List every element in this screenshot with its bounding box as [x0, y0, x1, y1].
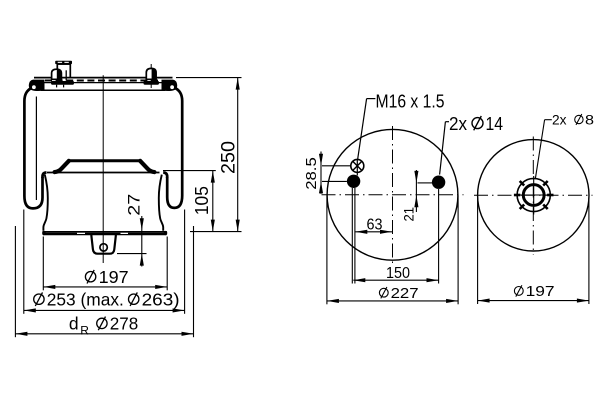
dim bottom extension line — [190, 231, 242, 233]
top plate top line — [34, 77, 173, 79]
svg-text:d: d — [69, 314, 79, 334]
piston flange line — [47, 172, 160, 174]
bottom plate slits — [77, 233, 85, 234]
left stud — [52, 69, 62, 79]
svg-text:28.5: 28.5 — [303, 157, 320, 190]
svg-text:263): 263) — [142, 290, 180, 310]
dim 197 text — [85, 272, 95, 282]
air fitting body — [57, 64, 70, 78]
dim 278 arrows — [15, 332, 27, 336]
top plate crimp dashes — [45, 80, 161, 82]
label M16 leader — [367, 98, 376, 100]
svg-text:63: 63 — [367, 217, 383, 234]
centerline left view — [102, 75, 104, 263]
dim 197 right line — [478, 300, 589, 302]
dim 28.5 ext lines — [322, 165, 351, 167]
hub bore circle — [523, 185, 544, 206]
right hole ext line — [438, 189, 440, 284]
dim 227 ext lines — [326, 196, 328, 305]
piston right side — [159, 175, 163, 231]
M16 port symbol — [351, 159, 364, 172]
bottom view h-centerline — [474, 194, 593, 196]
svg-text:150: 150 — [386, 265, 410, 282]
dim 28.5 arrows — [319, 154, 323, 166]
dim 278 ext lines — [14, 226, 16, 337]
top view v-centerline — [392, 126, 394, 265]
bellows inner surface line — [35, 97, 37, 201]
piston left side — [43, 175, 47, 231]
bellows shoulder line — [41, 89, 165, 91]
svg-text:250: 250 — [218, 141, 240, 174]
svg-text:105: 105 — [192, 186, 212, 215]
svg-text:27: 27 — [125, 194, 144, 216]
top view h-centerline — [322, 194, 464, 196]
dim 105 extension line — [163, 170, 216, 172]
boss hole — [100, 244, 107, 251]
air fitting flange — [55, 61, 72, 64]
dim 197 right arrows — [478, 299, 490, 303]
bottom plate end caps — [42, 231, 45, 235]
svg-text:M16 x 1.5: M16 x 1.5 — [376, 91, 445, 112]
hole ext lines pair — [351, 188, 353, 284]
svg-text:2x: 2x — [552, 112, 567, 128]
right stud — [146, 68, 156, 79]
svg-text:2x: 2x — [449, 113, 468, 134]
dim 278 line — [15, 333, 193, 335]
dim 21 line — [415, 170, 417, 212]
hub bolt circle ticks — [547, 194, 553, 197]
bellows inner wall top curl right — [163, 173, 167, 179]
dim 150 arrows — [353, 278, 365, 282]
dim 227 arrows — [327, 299, 339, 303]
dim 253 arrows — [24, 308, 36, 312]
right stud centerline — [150, 64, 152, 88]
right bead — [162, 80, 178, 91]
dim 250 line — [237, 78, 239, 232]
dim 105 arrows — [211, 171, 215, 183]
hub crosshair — [533, 176, 535, 215]
dim 250 top extension line — [176, 77, 242, 79]
svg-text:278: 278 — [110, 314, 139, 334]
dim 253 line — [24, 309, 185, 311]
svg-text:R: R — [80, 324, 89, 338]
air fitting flange slots — [58, 62, 62, 63]
dim 227 text — [379, 288, 388, 297]
svg-text:21: 21 — [401, 207, 417, 222]
top plate lower line — [44, 82, 162, 84]
label 2x8 leader — [545, 119, 552, 121]
piston top plate — [69, 159, 141, 162]
dim 253 ext lines — [23, 210, 25, 314]
dim 250 arrows — [236, 78, 240, 90]
svg-text:227: 227 — [391, 286, 419, 302]
hole 14 right — [432, 176, 445, 189]
bottom plate lower line — [43, 233, 166, 236]
dim 197 arrows — [43, 285, 55, 289]
dim 28.5 line — [320, 152, 322, 194]
bellows wall left — [24, 88, 42, 208]
svg-text:253 (max.: 253 (max. — [47, 290, 124, 310]
dim 63 line — [355, 231, 392, 233]
dim 150 line — [353, 279, 438, 281]
dim 253 text — [34, 294, 44, 304]
dim 197 right text — [514, 287, 523, 296]
svg-text:8: 8 — [585, 112, 594, 128]
piston bevel right — [140, 161, 154, 172]
piston bevel left — [55, 161, 69, 172]
dim 21 arrows — [414, 171, 418, 183]
dim 197 line — [43, 286, 167, 288]
bellows wall right — [167, 88, 182, 208]
dim 105 line — [212, 171, 214, 232]
svg-text:14: 14 — [486, 113, 504, 134]
hub bolt circle — [517, 178, 550, 211]
dim 21 ext line — [418, 182, 433, 184]
dim 197 ext lines — [42, 237, 44, 291]
hole 14 left — [347, 175, 360, 188]
svg-text:197: 197 — [526, 284, 555, 300]
right washer — [144, 81, 160, 85]
dim 63 arrows — [355, 230, 367, 234]
bottom view circle — [478, 140, 589, 251]
dim 227 line — [327, 300, 458, 302]
bellows inner wall top curl left — [43, 173, 47, 179]
dim 197 right ext lines — [477, 198, 479, 305]
bottom boss — [91, 235, 116, 254]
left bead — [29, 80, 45, 91]
air fitting inner line — [65, 70, 67, 80]
dim 27 arrows — [140, 218, 144, 230]
left washer ticks — [56, 85, 58, 88]
bottom plate upper line — [43, 231, 167, 233]
dim 27 extension line — [117, 253, 147, 255]
top view circle — [327, 129, 458, 260]
left washer — [51, 81, 74, 85]
bottom view v-centerline — [532, 137, 534, 255]
dim 27 line — [141, 216, 143, 267]
label 2x14 leader — [445, 121, 449, 123]
svg-text:197: 197 — [99, 267, 129, 287]
